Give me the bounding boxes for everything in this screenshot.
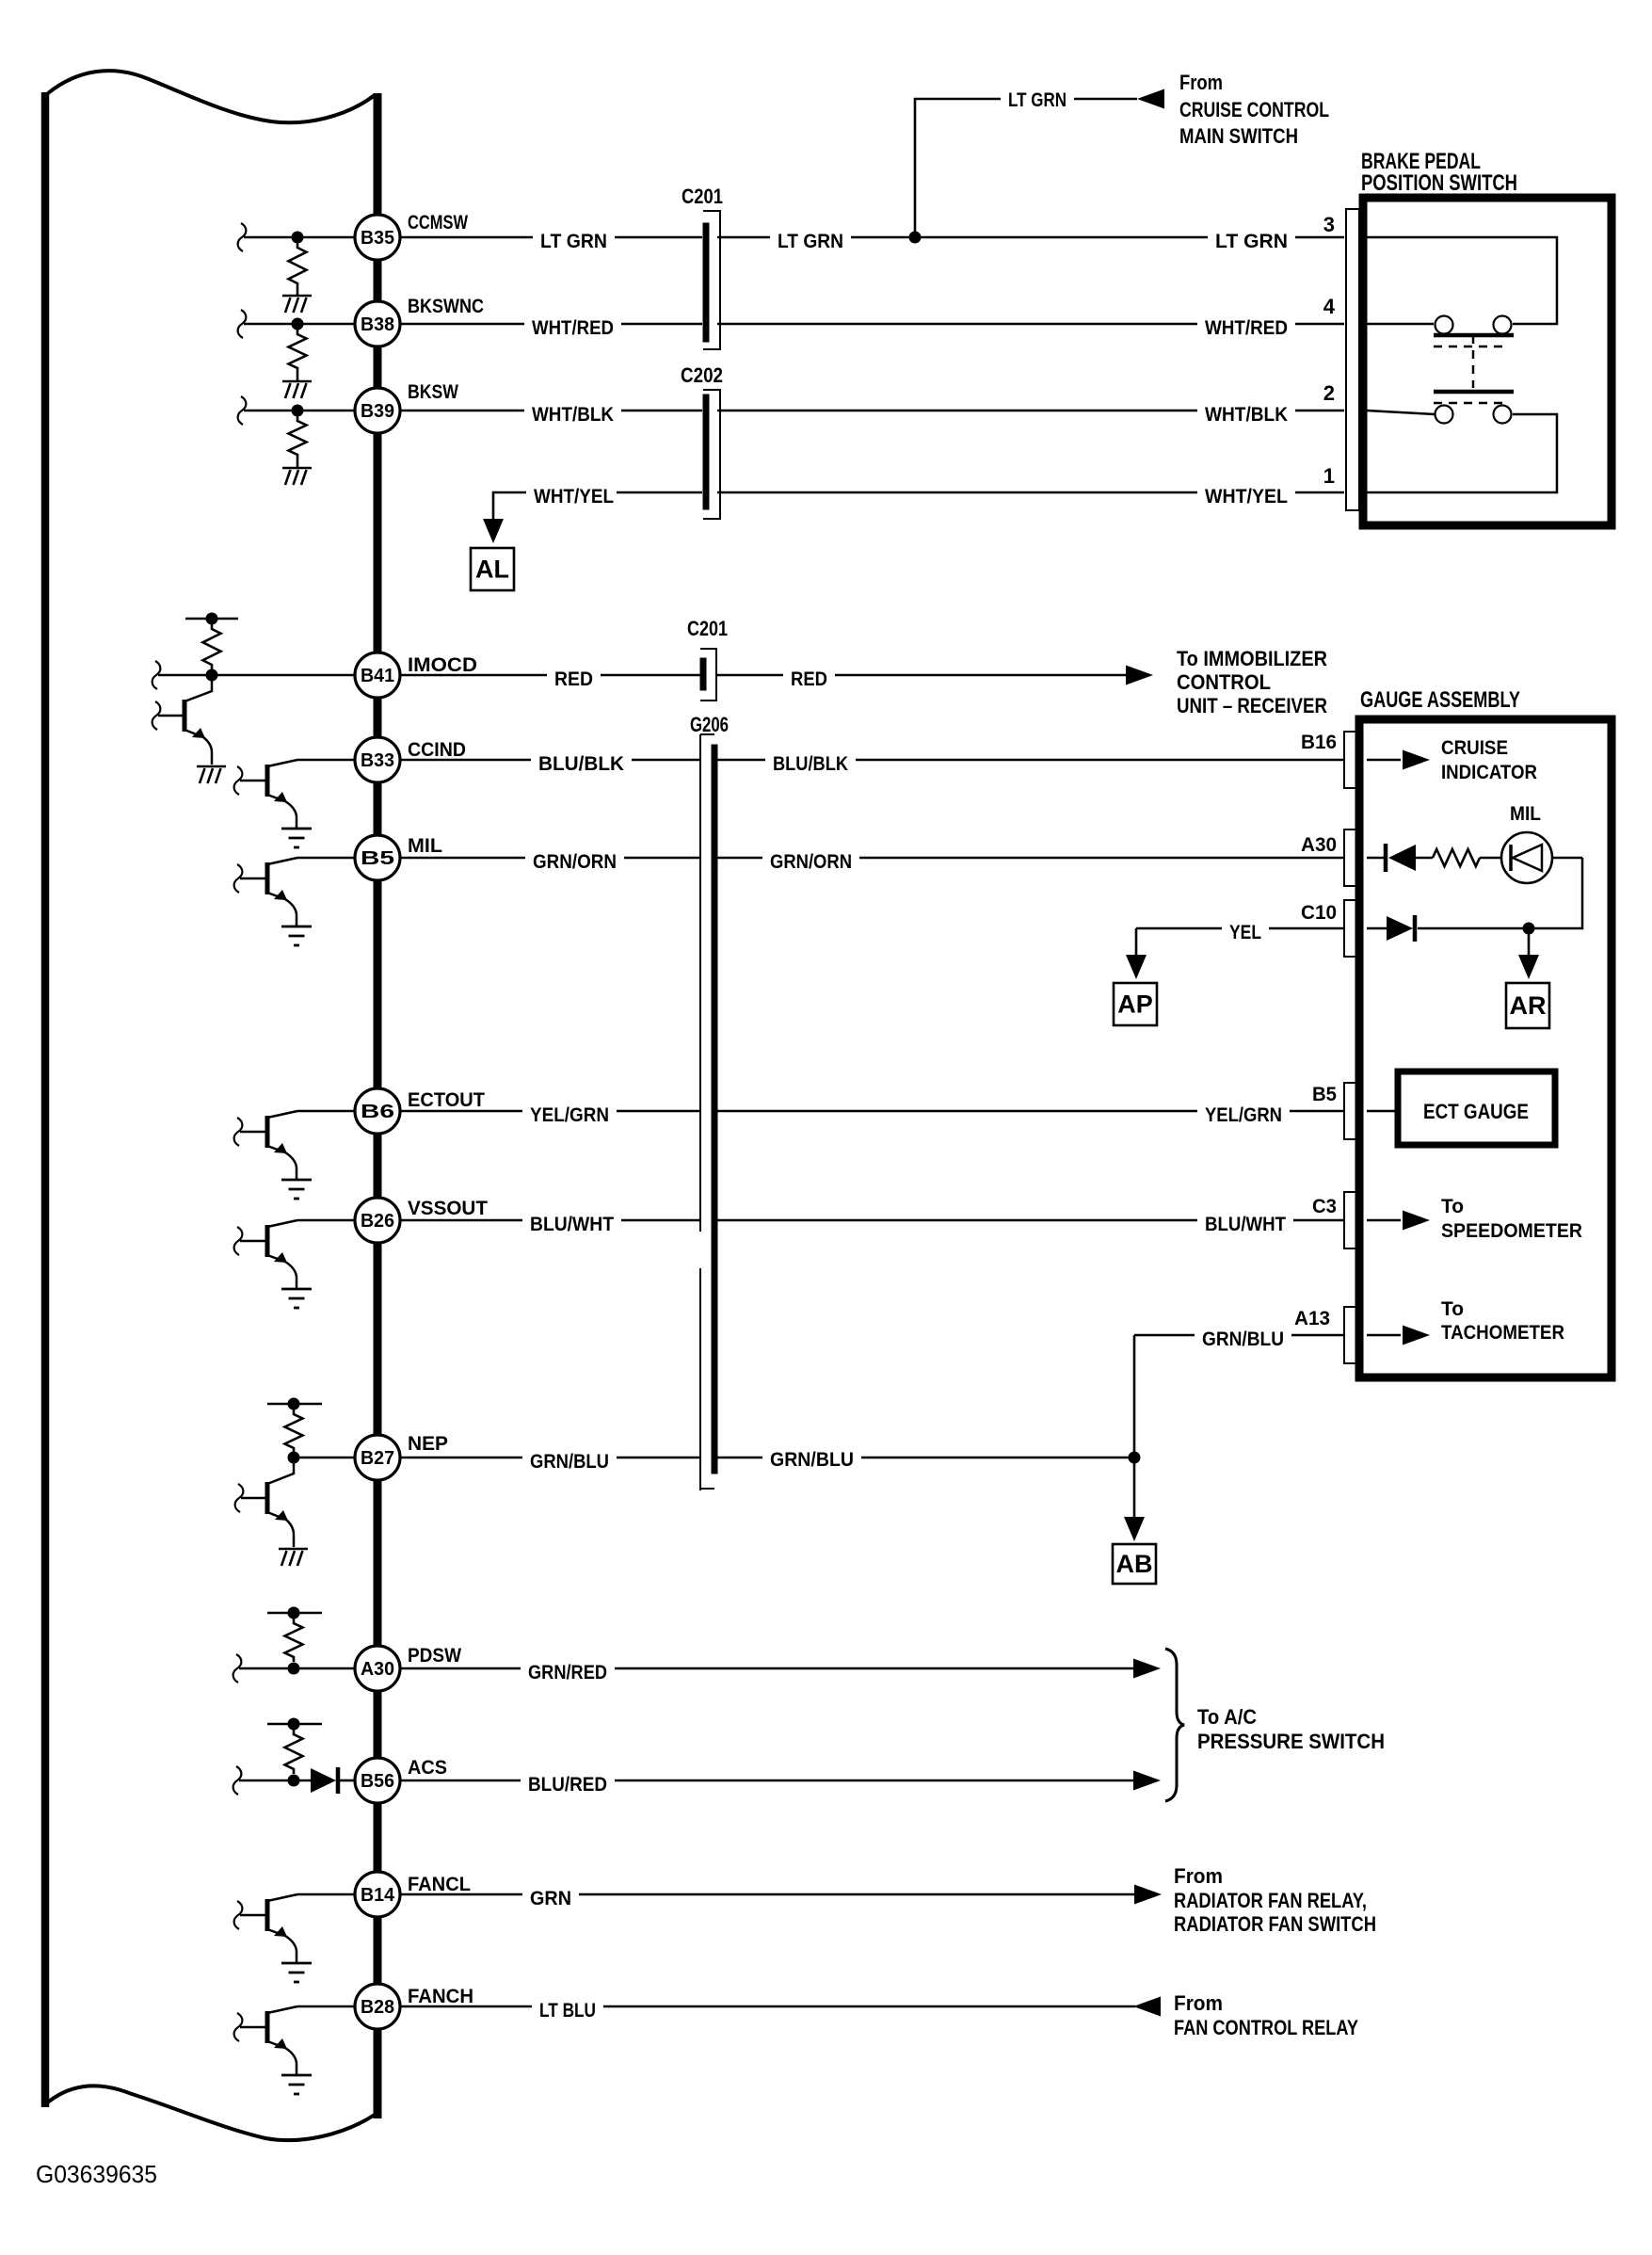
node: B41 row junction bbox=[206, 669, 218, 682]
wire: ECM torn bottom edge bbox=[44, 2086, 375, 2140]
switch: lower contact set bbox=[1434, 390, 1514, 395]
svg-text:BKSW: BKSW bbox=[408, 381, 458, 403]
arrow: to speedometer bbox=[1403, 1211, 1430, 1231]
node B26 (VSSOUT) bbox=[355, 1198, 400, 1243]
svg-text:B41: B41 bbox=[361, 666, 394, 686]
arrow to AL bbox=[483, 519, 504, 543]
svg-text:FANCH: FANCH bbox=[408, 1986, 473, 2007]
label YEL/GRN bbox=[522, 1103, 617, 1127]
label YEL/GRN bbox=[1197, 1103, 1290, 1127]
node: ACS pull-up top bbox=[288, 1718, 300, 1731]
svg-text:A30: A30 bbox=[361, 1659, 394, 1680]
wire: B33 collector row bbox=[297, 759, 355, 762]
wire: B41 row left lead bbox=[152, 661, 161, 689]
label GRN bbox=[522, 1887, 579, 1910]
transistor: B28 driver bbox=[265, 2011, 270, 2043]
wire RED (B41 to C201) bbox=[400, 674, 700, 677]
off-page connector AR bbox=[1506, 983, 1549, 1028]
resistor: ACS pull-up bbox=[285, 1730, 303, 1774]
svg-text:GRN/BLU: GRN/BLU bbox=[1202, 1329, 1284, 1350]
node: B38 row junction bbox=[292, 318, 304, 330]
svg-text:YEL/GRN: YEL/GRN bbox=[530, 1104, 609, 1126]
svg-text:C10: C10 bbox=[1301, 902, 1337, 924]
wire: B27 row bbox=[294, 1457, 355, 1459]
wire: PDSW row left lead bbox=[233, 1654, 242, 1683]
wire WHT/BLK (B39 to C202) bbox=[400, 410, 702, 412]
wire LT GRN (C201 to switch pin 3) bbox=[717, 236, 1344, 239]
svg-text:TACHOMETER: TACHOMETER bbox=[1441, 1322, 1564, 1344]
svg-text:BKSWNC: BKSWNC bbox=[408, 296, 484, 317]
wire: B41 pull-up top rail bbox=[185, 618, 238, 620]
pin C10 bbox=[1344, 900, 1357, 957]
svg-text:NEP: NEP bbox=[408, 1433, 448, 1455]
wire BLU/RED (B56 to A/C pressure switch) bbox=[400, 1780, 1133, 1782]
wire: ACS row left lead bbox=[233, 1766, 242, 1795]
wire: ECM left edge line bbox=[41, 92, 50, 2107]
resistor: MIL series bbox=[1433, 849, 1480, 866]
wire: ECM main bus bbox=[374, 93, 382, 2118]
svg-text:INDICATOR: INDICATOR bbox=[1441, 762, 1537, 783]
label BLU/RED bbox=[521, 1773, 615, 1796]
svg-text:GRN/BLU: GRN/BLU bbox=[530, 1451, 609, 1473]
svg-text:B33: B33 bbox=[361, 750, 394, 771]
wire WHT/YEL (C202 to switch pin 1) bbox=[717, 491, 1344, 494]
svg-text:B16: B16 bbox=[1301, 732, 1337, 753]
label BLU/WHT bbox=[522, 1213, 621, 1236]
off-page connector AB bbox=[1113, 1544, 1156, 1584]
wire: MIL lamp to C10 node bbox=[1534, 858, 1582, 928]
svg-text:From: From bbox=[1179, 71, 1223, 94]
wire GRN/ORN (G206 to gauge A30) bbox=[717, 857, 1344, 860]
wire GRN/BLU (B27 to G206) bbox=[400, 1457, 700, 1459]
wire: pin 1 internal to lower contact bbox=[1367, 414, 1557, 492]
node: NEP row junction bbox=[288, 1452, 300, 1464]
svg-text:To: To bbox=[1441, 1196, 1464, 1217]
wire: GRN/BLU riser (A13 to NEP row) bbox=[1133, 1335, 1136, 1458]
wire GRN/BLU (G206 to junction) bbox=[717, 1457, 1134, 1459]
ground bbox=[282, 380, 312, 383]
label GRN/BLU bbox=[1195, 1328, 1291, 1351]
svg-text:AR: AR bbox=[1510, 991, 1547, 1020]
svg-text:G206: G206 bbox=[690, 713, 729, 736]
component: ECT GAUGE bbox=[1398, 1071, 1555, 1145]
svg-text:GRN: GRN bbox=[530, 1888, 571, 1909]
ground bbox=[282, 467, 312, 470]
resistor: B35 pull-down bbox=[289, 243, 307, 288]
pin B16 bbox=[1344, 732, 1357, 788]
wire: pin 3 internal to upper contact bbox=[1367, 237, 1557, 324]
node B5 (MIL) bbox=[355, 835, 400, 880]
arrow from radiator fan relay bbox=[1134, 1885, 1162, 1905]
G206 bracket upper segment bbox=[699, 734, 701, 1232]
svg-text:B14: B14 bbox=[361, 1885, 395, 1906]
label LT BLU bbox=[532, 1999, 603, 2022]
svg-text:B5: B5 bbox=[361, 848, 394, 869]
arrow: to tachometer bbox=[1403, 1326, 1430, 1345]
node B41 (IMOCD) bbox=[355, 652, 400, 698]
node: pull-up top bbox=[206, 613, 218, 625]
wire: B27 pull-up top rail bbox=[267, 1403, 322, 1406]
svg-text:LT GRN: LT GRN bbox=[540, 231, 607, 252]
wire: B28 collector row bbox=[297, 2005, 355, 2008]
label YEL bbox=[1222, 921, 1269, 944]
svg-text:WHT/BLK: WHT/BLK bbox=[532, 404, 614, 426]
wire: B39 row left lead bbox=[238, 396, 247, 425]
node: PDSW row junction bbox=[288, 1663, 300, 1675]
svg-text:B38: B38 bbox=[361, 314, 394, 335]
svg-text:B39: B39 bbox=[361, 401, 394, 422]
svg-text:IMOCD: IMOCD bbox=[408, 654, 477, 676]
wire YEL/GRN (G206 to gauge B5) bbox=[717, 1110, 1344, 1113]
svg-text:RADIATOR FAN RELAY,: RADIATOR FAN RELAY, bbox=[1174, 1889, 1367, 1912]
svg-text:CCMSW: CCMSW bbox=[408, 212, 468, 234]
label GRN/BLU bbox=[522, 1450, 617, 1474]
wire LT GRN (B35 to C201) bbox=[400, 236, 702, 239]
svg-text:AB: AB bbox=[1116, 1550, 1153, 1578]
label BLU/WHT bbox=[1197, 1213, 1293, 1236]
label LT GRN bbox=[533, 230, 615, 253]
label GRN/RED bbox=[521, 1661, 615, 1684]
svg-text:CONTROL: CONTROL bbox=[1177, 670, 1271, 694]
svg-text:B6: B6 bbox=[361, 1102, 394, 1122]
svg-text:A30: A30 bbox=[1301, 834, 1337, 856]
svg-text:RADIATOR FAN SWITCH: RADIATOR FAN SWITCH bbox=[1174, 1912, 1376, 1936]
svg-text:B27: B27 bbox=[361, 1448, 394, 1469]
transistor: B5 driver bbox=[265, 862, 270, 894]
transistor: B26 driver bbox=[265, 1225, 270, 1257]
G206 bracket lower segment bbox=[699, 1268, 701, 1490]
svg-text:BLU/BLK: BLU/BLK bbox=[538, 753, 624, 775]
svg-text:YEL/GRN: YEL/GRN bbox=[1205, 1104, 1282, 1126]
arrow to A/C pressure switch bbox=[1133, 1659, 1161, 1679]
svg-text:WHT/BLK: WHT/BLK bbox=[1205, 404, 1288, 426]
svg-text:SPEEDOMETER: SPEEDOMETER bbox=[1441, 1220, 1582, 1242]
node B28 (FANCH) bbox=[355, 1984, 400, 2029]
svg-text:PRESSURE SWITCH: PRESSURE SWITCH bbox=[1197, 1730, 1385, 1753]
svg-text:C201: C201 bbox=[682, 185, 723, 208]
wire WHT/RED (B38 to C201) bbox=[400, 323, 702, 326]
label LT GRN bbox=[1208, 230, 1295, 253]
svg-text:4: 4 bbox=[1323, 295, 1336, 318]
svg-text:CCIND: CCIND bbox=[408, 739, 466, 761]
wire BLU/BLK (B33 to G206) bbox=[400, 759, 700, 762]
label LT GRN bbox=[1001, 89, 1074, 112]
resistor: B41 pull-up bbox=[203, 624, 221, 669]
svg-text:To A/C: To A/C bbox=[1197, 1705, 1257, 1729]
label GRN/BLU bbox=[762, 1448, 861, 1472]
svg-text:ECTOUT: ECTOUT bbox=[408, 1089, 485, 1111]
resistor: NEP pull-up bbox=[285, 1409, 303, 1453]
svg-text:LT GRN: LT GRN bbox=[1008, 89, 1067, 111]
label WHT/BLK bbox=[1197, 403, 1295, 427]
svg-text:C3: C3 bbox=[1312, 1196, 1337, 1217]
wire WHT/YEL (label to C202) bbox=[617, 491, 702, 494]
ground bbox=[282, 295, 312, 298]
svg-text:C202: C202 bbox=[681, 363, 723, 387]
node: B39 row junction bbox=[292, 405, 304, 417]
label RED bbox=[783, 668, 835, 691]
svg-text:FANCL: FANCL bbox=[408, 1874, 471, 1895]
diode D1 (MIL branch) bbox=[1384, 844, 1388, 872]
svg-text:From: From bbox=[1174, 1991, 1223, 2015]
svg-text:GRN/RED: GRN/RED bbox=[528, 1662, 607, 1683]
wire RED (C201 to immobilizer) bbox=[716, 674, 1126, 677]
wire YEL/GRN (B6 to G206) bbox=[400, 1110, 700, 1113]
wire WHT/RED (C201 to switch pin 4) bbox=[717, 323, 1344, 326]
svg-text:WHT/YEL: WHT/YEL bbox=[534, 486, 614, 507]
node B27 (NEP) bbox=[355, 1435, 400, 1480]
node B35 (CCMSW) bbox=[355, 215, 400, 260]
node: GRN/BLU junction bbox=[1129, 1452, 1141, 1464]
wire: pin 2 internal to lower contact bbox=[1367, 411, 1435, 414]
svg-text:BLU/WHT: BLU/WHT bbox=[530, 1214, 614, 1235]
node: PDSW pull-up top bbox=[288, 1607, 300, 1619]
wire GRN/ORN (B5 to G206) bbox=[400, 857, 700, 860]
node B33 (CCIND) bbox=[355, 737, 400, 782]
arrow to A/C pressure switch bbox=[1133, 1771, 1161, 1791]
svg-text:LT GRN: LT GRN bbox=[778, 231, 843, 252]
pin A13 bbox=[1344, 1307, 1357, 1363]
label WHT/RED bbox=[1197, 316, 1295, 340]
svg-text:B56: B56 bbox=[361, 1771, 394, 1792]
node: B35 row junction bbox=[292, 232, 304, 244]
wire GRN (B14 to radiator fan relay) bbox=[400, 1893, 1134, 1896]
arrow from fan control relay bbox=[1133, 1997, 1161, 2017]
switch: upper contact set bbox=[1435, 316, 1453, 334]
svg-text:VSSOUT: VSSOUT bbox=[408, 1198, 488, 1219]
svg-text:MAIN SWITCH: MAIN SWITCH bbox=[1179, 124, 1298, 148]
off-page connector AP bbox=[1114, 983, 1157, 1025]
svg-text:FAN CONTROL RELAY: FAN CONTROL RELAY bbox=[1174, 2016, 1358, 2039]
switch linkage (dashed) bbox=[1472, 335, 1475, 388]
G206 bracket bottom stub bbox=[700, 1488, 714, 1490]
wire: junction to AR bbox=[1528, 928, 1531, 964]
resistor: B38 pull-down bbox=[289, 330, 307, 373]
svg-text:To IMMOBILIZER: To IMMOBILIZER bbox=[1177, 647, 1327, 670]
transistor: B27 driver bbox=[265, 1482, 270, 1514]
resistor: PDSW pull-up bbox=[285, 1619, 303, 1662]
svg-text:MIL: MIL bbox=[1510, 803, 1541, 825]
label BLU/BLK bbox=[531, 752, 632, 776]
node B14 (FANCL) bbox=[355, 1872, 400, 1917]
node: ACS row junction bbox=[288, 1775, 300, 1787]
connector strip on switch bbox=[1346, 209, 1359, 510]
wire: YEL row (gauge C10 to AP) bbox=[1136, 927, 1227, 930]
wire LT BLU (B28 to fan control relay) bbox=[400, 2005, 1135, 2008]
transistor: B33 driver bbox=[265, 765, 270, 797]
svg-text:POSITION SWITCH: POSITION SWITCH bbox=[1361, 170, 1517, 196]
wire GRN/RED (A30 to A/C pressure switch) bbox=[400, 1667, 1133, 1670]
arrow to AP bbox=[1126, 955, 1147, 979]
wire: PDSW pull-up top rail bbox=[267, 1612, 322, 1615]
wire BLU/WHT (G206 to gauge C3) bbox=[717, 1219, 1344, 1222]
svg-text:LT GRN: LT GRN bbox=[1215, 231, 1288, 252]
svg-text:WHT/RED: WHT/RED bbox=[1205, 317, 1288, 339]
diode D2 (C10 branch) bbox=[1387, 916, 1413, 941]
svg-text:UNIT – RECEIVER: UNIT – RECEIVER bbox=[1177, 694, 1327, 717]
label GRN/ORN bbox=[762, 850, 859, 874]
svg-text:B5: B5 bbox=[1312, 1084, 1337, 1105]
svg-text:BLU/WHT: BLU/WHT bbox=[1205, 1214, 1286, 1235]
node B38 (BKSWNC) bbox=[355, 301, 400, 346]
arrow to AB bbox=[1124, 1517, 1145, 1541]
label RED bbox=[547, 668, 601, 691]
wire: pin 4 internal to upper contact bbox=[1367, 323, 1434, 326]
node: MIL/C10 junction bbox=[1523, 923, 1535, 935]
node B6 (ECTOUT) bbox=[355, 1088, 400, 1134]
node B39 (BKSW) bbox=[355, 388, 400, 433]
svg-text:GAUGE ASSEMBLY: GAUGE ASSEMBLY bbox=[1360, 687, 1520, 713]
svg-text:LT BLU: LT BLU bbox=[539, 2000, 596, 2021]
arrow to immobilizer control unit bbox=[1126, 666, 1153, 685]
svg-text:GRN/BLU: GRN/BLU bbox=[770, 1449, 854, 1471]
label GRN/ORN bbox=[525, 850, 624, 874]
label WHT/BLK bbox=[524, 403, 621, 427]
transistor: B41 driver bbox=[183, 700, 187, 732]
svg-text:C201: C201 bbox=[687, 617, 728, 640]
svg-text:B26: B26 bbox=[361, 1211, 394, 1232]
G206 bar bbox=[712, 745, 717, 1474]
svg-text:PDSW: PDSW bbox=[408, 1645, 461, 1667]
label WHT/RED bbox=[524, 316, 621, 340]
svg-text:AL: AL bbox=[475, 556, 509, 584]
svg-text:WHT/RED: WHT/RED bbox=[532, 317, 614, 339]
wire: B14 collector row bbox=[297, 1893, 355, 1896]
svg-text:RED: RED bbox=[791, 668, 827, 690]
svg-text:BLU/RED: BLU/RED bbox=[528, 1774, 607, 1796]
wire: B38 row left lead bbox=[238, 310, 247, 338]
svg-text:BLU/BLK: BLU/BLK bbox=[773, 753, 848, 775]
wire: junction to AB bbox=[1133, 1458, 1136, 1525]
wire: B26 collector row bbox=[297, 1219, 355, 1222]
svg-text:G03639635: G03639635 bbox=[36, 2160, 157, 2188]
node: LT GRN tap to cruise control bbox=[909, 232, 922, 244]
wire BLU/BLK (G206 to gauge B16) bbox=[717, 759, 1344, 762]
svg-text:AP: AP bbox=[1117, 991, 1153, 1019]
svg-text:1: 1 bbox=[1323, 464, 1335, 488]
svg-text:From: From bbox=[1174, 1864, 1223, 1888]
node: NEP pull-up top bbox=[288, 1398, 300, 1410]
node B56 (ACS) bbox=[355, 1758, 400, 1803]
arrow from cruise control main switch bbox=[1137, 89, 1164, 109]
wire: WHT/YEL elbow to AL bbox=[493, 492, 531, 520]
svg-text:WHT/YEL: WHT/YEL bbox=[1205, 486, 1288, 507]
arrow to AR bbox=[1518, 955, 1539, 979]
resistor: B39 pull-down bbox=[289, 416, 307, 459]
svg-text:MIL: MIL bbox=[408, 835, 442, 857]
label BLU/BLK bbox=[765, 752, 856, 776]
G206 bracket top stub bbox=[700, 733, 714, 735]
brace: A/C pressure switch group bbox=[1165, 1649, 1184, 1801]
svg-text:CRUISE CONTROL: CRUISE CONTROL bbox=[1179, 98, 1329, 121]
wire BLU/WHT (B26 to G206) bbox=[400, 1219, 700, 1222]
svg-text:ECT GAUGE: ECT GAUGE bbox=[1423, 1100, 1529, 1123]
label LT GRN bbox=[770, 230, 851, 253]
svg-text:ACS: ACS bbox=[408, 1757, 447, 1779]
node A30 (PDSW) bbox=[355, 1646, 400, 1691]
wire: GRN/BLU A13 row bbox=[1134, 1334, 1199, 1337]
transistor: B6 driver bbox=[265, 1116, 270, 1148]
svg-text:B28: B28 bbox=[361, 1997, 394, 2018]
diode D3 (ACS) bbox=[311, 1768, 336, 1793]
svg-text:CRUISE: CRUISE bbox=[1441, 737, 1508, 759]
transistor: B14 driver bbox=[265, 1899, 270, 1931]
pin A30 bbox=[1344, 830, 1357, 886]
svg-text:To: To bbox=[1441, 1298, 1464, 1320]
svg-text:GRN/ORN: GRN/ORN bbox=[770, 851, 852, 873]
wire WHT/BLK (C202 to switch pin 2) bbox=[717, 410, 1344, 412]
pin B5 (gauge) bbox=[1344, 1083, 1357, 1139]
pin C3 bbox=[1344, 1192, 1357, 1248]
wire: LT GRN branch to cruise control main switch bbox=[915, 99, 1005, 237]
svg-text:A13: A13 bbox=[1294, 1308, 1330, 1329]
svg-text:YEL: YEL bbox=[1229, 922, 1261, 943]
svg-text:RED: RED bbox=[554, 668, 593, 690]
svg-text:2: 2 bbox=[1323, 381, 1335, 405]
wire: B6 collector row bbox=[297, 1110, 355, 1113]
wire: B5 collector row bbox=[297, 857, 355, 860]
label WHT/YEL bbox=[1197, 485, 1295, 508]
arrow: cruise indicator feed bbox=[1403, 750, 1430, 770]
svg-text:B35: B35 bbox=[361, 228, 394, 249]
svg-text:3: 3 bbox=[1323, 213, 1335, 236]
wire: ACS pull-up top rail bbox=[267, 1723, 322, 1726]
off-page connector AL bbox=[471, 548, 514, 590]
svg-text:GRN/ORN: GRN/ORN bbox=[533, 851, 617, 873]
label WHT/YEL bbox=[526, 485, 621, 508]
wire: B35 row left lead bbox=[238, 223, 247, 251]
wire: ECM torn top edge bbox=[48, 71, 375, 122]
